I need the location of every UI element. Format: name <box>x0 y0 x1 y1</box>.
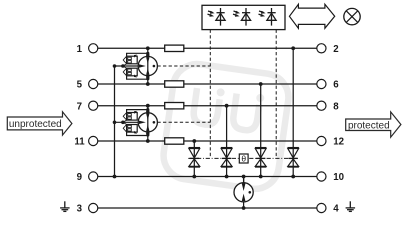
svg-text:1: 1 <box>77 44 83 55</box>
svg-text:5: 5 <box>77 80 83 91</box>
svg-text:θ: θ <box>241 154 246 164</box>
svg-text:protected: protected <box>348 120 390 131</box>
svg-text:6: 6 <box>333 80 339 91</box>
svg-text:unprotected: unprotected <box>9 119 62 130</box>
svg-text:2: 2 <box>333 44 338 55</box>
svg-text:10: 10 <box>333 172 344 183</box>
svg-text:11: 11 <box>74 137 85 148</box>
svg-text:9: 9 <box>77 172 83 183</box>
svg-text:7: 7 <box>77 101 82 112</box>
svg-text:3: 3 <box>77 204 83 215</box>
svg-text:12: 12 <box>333 137 344 148</box>
svg-text:8: 8 <box>333 101 339 112</box>
svg-text:4: 4 <box>333 204 339 215</box>
